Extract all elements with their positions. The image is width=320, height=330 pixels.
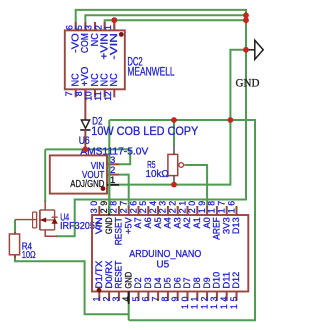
svg-text:MEANWELL: MEANWELL [127,64,174,78]
svg-text:16: 16 [226,201,236,214]
svg-text:8: 8 [74,91,84,96]
svg-text:7: 7 [150,297,160,302]
svg-text:12: 12 [199,297,209,310]
svg-text:RESET: RESET [114,260,124,288]
svg-text:D7: D7 [182,277,192,288]
svg-text:20: 20 [187,201,197,214]
svg-text:10W COB LED COPY: 10W COB LED COPY [91,126,198,138]
svg-text:A6: A6 [143,217,153,228]
svg-text:-VIN: -VIN [109,33,120,59]
svg-text:D6: D6 [172,277,182,288]
svg-text:8: 8 [160,297,170,302]
svg-text:+5V: +5V [123,216,133,234]
svg-text:6: 6 [141,297,151,302]
svg-text:D11: D11 [221,272,231,289]
svg-text:10kΩ: 10kΩ [146,169,170,180]
svg-text:D12: D12 [231,272,241,289]
svg-text:GND: GND [236,78,260,90]
svg-text:A3: A3 [172,217,182,228]
svg-text:30: 30 [89,201,99,214]
svg-text:27: 27 [119,201,129,214]
svg-text:D0/RX: D0/RX [104,261,114,289]
svg-text:10Ω: 10Ω [22,250,36,261]
svg-text:AREF: AREF [212,217,222,240]
svg-text:15: 15 [229,297,239,310]
svg-text:D5: D5 [163,277,173,288]
svg-text:25: 25 [138,201,148,214]
svg-text:10: 10 [180,297,190,310]
svg-text:29: 29 [99,201,109,214]
svg-text:11: 11 [93,91,103,101]
svg-text:13: 13 [209,297,219,310]
svg-text:D3: D3 [143,277,153,288]
svg-text:VIN: VIN [94,217,104,234]
svg-text:22: 22 [168,201,178,214]
svg-text:A0: A0 [202,217,212,228]
svg-text:17: 17 [217,201,227,214]
svg-text:1: 1 [110,175,115,186]
svg-text:D2: D2 [133,277,143,288]
svg-text:14: 14 [219,297,229,310]
svg-text:3: 3 [84,25,94,30]
svg-text:23: 23 [158,201,168,214]
svg-text:21: 21 [177,201,187,214]
svg-text:2: 2 [101,297,111,302]
svg-text:NC: NC [109,73,120,86]
svg-text:11: 11 [190,297,200,310]
svg-text:D10: D10 [212,272,222,289]
svg-text:6: 6 [64,25,74,30]
svg-text:D9: D9 [202,277,212,288]
svg-text:D1/TX: D1/TX [94,261,104,289]
svg-text:5: 5 [131,297,141,302]
svg-text:D13: D13 [231,217,241,234]
svg-text:12: 12 [103,91,113,101]
svg-text:D8: D8 [192,277,202,288]
svg-text:19: 19 [197,201,207,214]
svg-text:A1: A1 [192,217,202,228]
svg-text:1: 1 [103,25,113,30]
svg-text:ARDUINO_NANO: ARDUINO_NANO [129,248,201,260]
svg-text:D4: D4 [153,277,163,288]
svg-text:2: 2 [93,25,103,30]
svg-text:U5: U5 [156,260,169,271]
svg-text:3V3: 3V3 [221,217,231,234]
svg-text:18: 18 [207,201,217,214]
svg-text:A7: A7 [133,217,143,228]
svg-text:24: 24 [148,201,158,214]
svg-text:7: 7 [64,91,74,96]
svg-text:26: 26 [128,201,138,214]
svg-text:RESET: RESET [114,217,124,245]
svg-text:A5: A5 [153,217,163,228]
svg-text:GND: GND [123,272,133,289]
svg-text:GND: GND [104,217,114,234]
svg-text:9: 9 [170,297,180,302]
svg-text:A4: A4 [163,217,173,228]
svg-text:ADJ/GND: ADJ/GND [70,179,104,190]
svg-text:5: 5 [74,25,84,30]
svg-text:10: 10 [84,91,94,101]
svg-text:1: 1 [92,297,102,302]
svg-text:A2: A2 [182,217,192,228]
svg-text:3: 3 [111,297,121,302]
